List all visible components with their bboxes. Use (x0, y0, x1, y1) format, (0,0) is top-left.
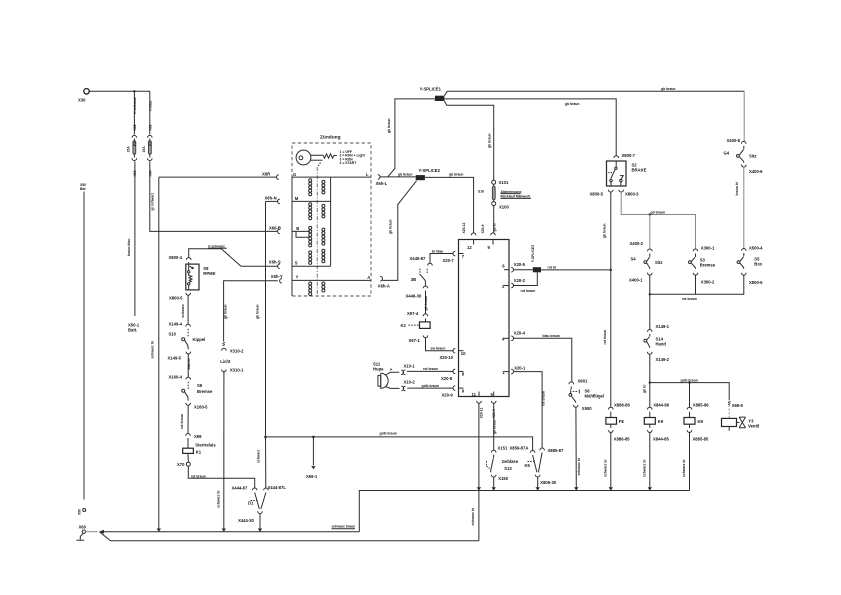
svg-text:X885-85: X885-85 (693, 437, 710, 442)
svg-text:X10-1: X10-1 (404, 363, 416, 368)
svg-text:X6h-L: X6h-L (376, 181, 388, 186)
svg-text:BRAKE: BRAKE (632, 168, 647, 173)
svg-text:schwarz: schwarz (181, 304, 185, 318)
node X30 battery terminal (78, 89, 89, 103)
wire S5 to S4 bottom rail (650, 275, 744, 301)
switch S5 Box (737, 253, 763, 269)
switch S6 Maehfluegel (569, 386, 604, 402)
svg-text:X859-87A: X859-87A (510, 446, 529, 451)
svg-text:schwarz br: schwarz br (577, 457, 581, 475)
svg-text:X60: X60 (79, 525, 87, 530)
wire X10-2 to pin 9 (407, 384, 453, 388)
svg-text:X800-5: X800-5 (590, 191, 604, 196)
switch D1 changeover (248, 493, 266, 514)
svg-text:X885-87: X885-87 (548, 448, 565, 453)
wire X70 to X444-87 (188, 466, 254, 488)
fuse S16 Abbremsung (478, 184, 531, 201)
svg-text:X6h-A: X6h-A (378, 284, 390, 289)
svg-text:gb braun: gb braun (565, 102, 580, 106)
bus A ground rail (86, 530, 360, 534)
svg-text:X97-4: X97-4 (407, 311, 419, 316)
svg-text:Sitz: Sitz (749, 154, 756, 159)
wire K5 to bus (537, 477, 539, 491)
svg-text:K8: K8 (698, 419, 704, 424)
pin 4 (502, 331, 526, 342)
svg-text:X310-2: X310-2 (230, 348, 244, 353)
svg-text:X900: X900 (582, 406, 592, 411)
bus C relay return rail (359, 491, 689, 532)
svg-text:X50: X50 (78, 509, 82, 515)
ignition position table (340, 150, 366, 165)
svg-text:X149-4: X149-4 (169, 321, 183, 326)
svg-text:X885-86: X885-86 (693, 403, 710, 408)
svg-text:G: G (293, 172, 296, 177)
wire X30 to fuses (89, 90, 150, 92)
horn S11 Hupe (373, 362, 400, 389)
node X10-1 (401, 363, 415, 374)
svg-text:Licht: Licht (220, 359, 231, 364)
svg-text:X400-6: X400-6 (749, 169, 763, 174)
node X400-8 (727, 138, 747, 144)
wire splice3 to S2 junction (541, 266, 611, 270)
node X310-2 (222, 348, 244, 353)
svg-text:X500-4: X500-4 (749, 245, 763, 250)
wire X800-5 to X149-4 (181, 295, 188, 324)
svg-text:gb braun: gb braun (602, 223, 606, 238)
svg-text:sw braun: sw braun (431, 346, 446, 350)
wire pin 4 to S6 (514, 334, 572, 382)
pin 9 left (442, 386, 465, 398)
svg-text:gb braun: gb braun (223, 304, 227, 319)
wire Y row exit (224, 281, 278, 342)
svg-text:X6h-S: X6h-S (269, 259, 281, 264)
svg-text:X6R: X6R (262, 172, 270, 177)
svg-text:rot braun: rot braun (682, 297, 697, 301)
svg-text:gb braun: gb braun (256, 304, 260, 319)
pin 1 (502, 365, 526, 374)
wire S3 bottom to rail (695, 275, 697, 294)
svg-text:gb braun: gb braun (398, 172, 413, 176)
svg-text:gelb braun: gelb braun (380, 432, 397, 436)
svg-text:15A: 15A (142, 146, 146, 153)
junction triangles on bus A (157, 529, 161, 532)
svg-text:X400-2: X400-2 (630, 241, 644, 246)
svg-text:Ventil: Ventil (748, 424, 759, 429)
wire ignition left edge (291, 177, 293, 296)
relay K8 (684, 403, 709, 442)
svg-text:X20-10: X20-10 (440, 355, 454, 360)
ignition contact circles column 1 group B (309, 226, 312, 247)
wire S2 right pin to S3 (621, 192, 695, 249)
switch S13 Geblaese (487, 455, 519, 473)
svg-text:X20-8: X20-8 (441, 376, 453, 381)
wire X310-1 to bus A (216, 372, 224, 532)
svg-text:rt blau: rt blau (148, 101, 152, 111)
svg-text:X20-4: X20-4 (514, 331, 526, 336)
wire S4 bottom to X149-1 (649, 275, 651, 330)
svg-text:X151: X151 (498, 446, 508, 451)
svg-text:+: + (390, 368, 393, 373)
node X800-3 (619, 190, 639, 197)
svg-text:A: A (367, 275, 370, 280)
svg-text:Y3: Y3 (748, 418, 754, 423)
node X60 ground terminal (79, 525, 87, 534)
node X446-30 (406, 286, 428, 298)
wire top bus down to X400-8 (743, 91, 745, 141)
svg-text:F8: F8 (619, 419, 625, 424)
svg-text:rot braun: rot braun (521, 289, 536, 293)
node X6h-N (265, 195, 280, 203)
wire X10-1 to pin 8 (407, 367, 453, 371)
svg-text:S13: S13 (504, 466, 512, 471)
fuse F2 15A (127, 135, 138, 160)
node X101 (492, 180, 509, 185)
svg-text:K9: K9 (658, 419, 664, 424)
svg-text:X886-85: X886-85 (614, 437, 631, 442)
node X6h-A (378, 276, 390, 288)
wire ignition G feed riser (150, 177, 158, 532)
ground symbol (76, 533, 84, 540)
wire K9 to bus (642, 432, 650, 490)
ignition contact circles column 2 group M (322, 204, 325, 218)
svg-text:X500-5: X500-5 (749, 280, 763, 285)
svg-text:gb braun: gb braun (449, 173, 464, 177)
svg-text:X6h-N: X6h-N (265, 195, 277, 200)
switch S3 Bremse (689, 254, 716, 269)
ignition contact circles column 2 group S (322, 249, 325, 263)
svg-text:X20-12: X20-12 (462, 222, 466, 233)
svg-text:Kippel: Kippel (193, 337, 206, 342)
svg-text:Zündung: Zündung (320, 135, 341, 141)
pin 10 (440, 348, 467, 360)
node X800-7 (614, 153, 636, 158)
wire fuse F1 feed (149, 91, 151, 134)
node X900 (574, 405, 593, 411)
svg-text:schwarz br: schwarz br (471, 507, 475, 525)
ignition contact circles column 1 group S (309, 251, 312, 265)
pin 6 (502, 262, 525, 272)
wire X446-30 to X97-4 (424, 291, 428, 314)
relay K1 Startrelais (183, 438, 217, 454)
svg-text:schwarz br: schwarz br (642, 459, 646, 477)
svg-text:rot braun: rot braun (423, 367, 438, 371)
svg-text:gb braun: gb braun (492, 419, 496, 434)
svg-text:X310-1: X310-1 (230, 367, 244, 372)
pin 5 (491, 392, 497, 419)
svg-text:X444-87: X444-87 (232, 485, 249, 490)
node X59-1 stub (306, 437, 318, 479)
svg-text:Y: Y (296, 275, 299, 280)
svg-text:rt schwarz: rt schwarz (133, 97, 137, 114)
wire S13 to bus (493, 477, 495, 491)
node X800-5 (590, 190, 614, 197)
node X150 (491, 475, 508, 481)
svg-text:br blau: br blau (432, 249, 443, 253)
svg-text:X800-3: X800-3 (625, 191, 639, 196)
node X99 (186, 434, 202, 439)
node X50 connector (78, 509, 86, 516)
svg-text:Batt.: Batt. (128, 328, 137, 333)
ignition contact circles column 1 group M (309, 203, 312, 220)
svg-text:K2: K2 (401, 323, 407, 328)
svg-text:X160-5: X160-5 (194, 404, 208, 409)
svg-text:X149-1: X149-1 (656, 324, 670, 329)
svg-text:L: L (366, 172, 369, 177)
svg-text:15A: 15A (127, 146, 131, 153)
svg-text:K1: K1 (196, 449, 202, 454)
svg-text:X20-9: X20-9 (481, 224, 485, 233)
svg-text:rot braun: rot braun (180, 414, 184, 429)
valve Y3 Ventil (722, 405, 760, 431)
svg-text:12: 12 (467, 245, 472, 250)
node X50-2 Batt (80, 183, 86, 191)
switch S9 Bremse (182, 382, 213, 401)
svg-text:Sitz: Sitz (655, 260, 662, 265)
node X10-2 (401, 379, 415, 390)
wire ignition L row to pin 12 (380, 177, 474, 233)
node X6h-S (269, 259, 281, 268)
svg-text:gb braun: gb braun (661, 87, 676, 91)
ignition contact circles column 1 group G (309, 179, 312, 196)
sensor box S8 RPMK (186, 262, 216, 290)
wire splice1 to X800-7 feed (444, 99, 616, 156)
svg-text:Gebläse: Gebläse (502, 459, 519, 464)
node X149-4 (169, 321, 191, 326)
wire pin 5 to X151 (492, 403, 496, 450)
wire ignition M riser (256, 201, 266, 437)
svg-text:X70: X70 (177, 462, 185, 467)
svg-text:gb br: gb br (642, 384, 646, 393)
svg-text:F1: F1 (149, 142, 153, 146)
svg-text:D1: D1 (248, 501, 254, 506)
svg-text:rot braun: rot braun (541, 391, 545, 406)
svg-text:X160-4: X160-4 (169, 374, 183, 379)
switch K5 changeover (510, 446, 565, 485)
node X160-5 (186, 403, 208, 410)
node X445-87 (410, 256, 433, 266)
svg-text:Startrelais: Startrelais (195, 443, 216, 448)
node X69-6 (728, 402, 744, 409)
wire S6 to bus (576, 407, 581, 490)
svg-text:schwarz br: schwarz br (682, 459, 686, 477)
wire S2 left pin down to F8 (602, 192, 612, 407)
wire row G (292, 177, 371, 266)
svg-text:X149-2: X149-2 (656, 357, 670, 362)
svg-text:schwarz braun: schwarz braun (332, 525, 356, 529)
svg-text:X20-2: X20-2 (514, 278, 526, 283)
node X149-1 (648, 324, 670, 332)
wire row M (292, 200, 331, 202)
svg-text:X20-11: X20-11 (479, 408, 483, 419)
node X300-1 (693, 245, 715, 251)
splice Y-SPLICE3 (531, 245, 541, 272)
wire row S (292, 265, 331, 267)
svg-text:gr schwarz: gr schwarz (150, 192, 154, 210)
wire splice1 lower branch to X101 (444, 101, 493, 180)
ignition contact circles column 1 group Y (309, 282, 312, 296)
pin 12 (467, 233, 476, 250)
wire fuse F2 feed (133, 91, 135, 134)
svg-text:X800-5: X800-5 (169, 296, 183, 301)
svg-text:Y-SPLICE3: Y-SPLICE3 (531, 245, 535, 262)
svg-text:4 = START: 4 = START (340, 161, 358, 165)
svg-text:schwarz: schwarz (256, 449, 260, 463)
svg-text:X61: X61 (148, 124, 152, 130)
svg-text:S4: S4 (631, 257, 637, 262)
svg-text:X446-30: X446-30 (406, 293, 423, 298)
wire F8 to bus (603, 432, 611, 490)
wire X400-6 to X500-4 (735, 167, 744, 249)
wire pin 2 loop to splice3 (514, 272, 538, 293)
svg-text:K5: K5 (525, 463, 531, 468)
control unit U1 (459, 240, 510, 397)
svg-text:gb braun: gb braun (424, 296, 428, 311)
relay K9 (644, 403, 669, 442)
svg-text:X20-7: X20-7 (443, 258, 455, 263)
net label schwarz braun underlined (332, 525, 356, 529)
svg-text:Hupe: Hupe (373, 367, 384, 372)
svg-text:Bat: Bat (80, 187, 86, 191)
node X400-1 (629, 273, 652, 283)
pin 11 (472, 392, 484, 419)
wire X160-5 to X99 (180, 405, 188, 434)
wire S row exit to S8 (189, 249, 278, 266)
svg-text:Hand: Hand (656, 342, 667, 347)
node X800-4 (169, 255, 192, 260)
svg-text:X886-86: X886-86 (614, 403, 631, 408)
svg-text:gb braun: gb braun (389, 219, 393, 234)
node X310-1 (222, 367, 244, 372)
svg-text:Bremse: Bremse (197, 389, 213, 394)
svg-text:X59-1: X59-1 (306, 474, 318, 479)
svg-text:X6h-Y: X6h-Y (271, 274, 283, 279)
svg-text:gb br: gb br (492, 222, 496, 231)
wire pin 11 riser to bus B (471, 403, 479, 541)
svg-text:X99: X99 (194, 434, 202, 439)
svg-text:F2: F2 (133, 142, 137, 146)
splice Y-SPLICE1 (420, 86, 445, 101)
svg-text:X69-6: X69-6 (732, 403, 744, 408)
wire M riser to X444-87L (256, 436, 266, 489)
wire X97-1 to pin 10 (426, 338, 454, 351)
svg-text:X844-85: X844-85 (653, 437, 670, 442)
wire Licht feed (223, 304, 228, 345)
svg-text:X444-30: X444-30 (238, 518, 255, 523)
svg-text:3B: 3B (411, 277, 416, 282)
pin 7 (432, 249, 465, 263)
node X151 (491, 446, 508, 453)
node X160-4 (169, 374, 191, 379)
node X300-2 (693, 273, 715, 285)
wire splice1 left branch to ignition L riser (388, 99, 435, 177)
svg-text:S9: S9 (197, 383, 203, 388)
wire label rot schwarz underlined (208, 244, 227, 248)
wire pin 1 to K5 (514, 372, 546, 448)
svg-text:braun blau: braun blau (127, 239, 131, 256)
wire row B (292, 231, 310, 237)
fuse F1 15A (142, 135, 153, 160)
svg-text:X10-2: X10-2 (404, 379, 416, 384)
svg-text:Y-SPLICE2: Y-SPLICE2 (419, 168, 441, 173)
wire K8 to bus (682, 432, 690, 490)
svg-text:G4: G4 (724, 150, 730, 155)
node X400-2 (630, 241, 653, 251)
node X444-87L (264, 485, 287, 490)
svg-text:X400-1: X400-1 (629, 278, 643, 283)
wire K8 feed (688, 381, 690, 407)
wire D1 to bus A (238, 513, 260, 531)
wire X149-5 to X160-4 (187, 354, 191, 378)
svg-text:X20-9: X20-9 (442, 392, 454, 397)
svg-text:blau braun: blau braun (543, 334, 560, 338)
ignition switch box Zuendung (292, 135, 371, 297)
svg-text:X62: X62 (133, 124, 137, 130)
node X444-87 (232, 485, 258, 490)
svg-text:X150: X150 (498, 476, 508, 481)
wire X100 to pin 9 (493, 206, 495, 233)
ignition contact circles column 2 group B (322, 228, 325, 245)
svg-text:schwarz br: schwarz br (150, 340, 154, 358)
svg-text:rot braun: rot braun (603, 330, 607, 345)
svg-text:rot braun: rot braun (191, 474, 206, 478)
svg-text:X100: X100 (499, 205, 509, 210)
wire X50-2 down to X50 connector (83, 192, 85, 500)
wire S4 feed (649, 213, 651, 249)
svg-text:11: 11 (472, 392, 477, 397)
svg-text:Bremse: Bremse (700, 263, 716, 268)
ignition actuation dash-dot line (316, 167, 318, 294)
svg-text:X844-86: X844-86 (653, 403, 670, 408)
svg-text:gb braun: gb braun (651, 210, 666, 214)
svg-text:X20-5: X20-5 (514, 262, 526, 267)
pin 8 (441, 369, 465, 381)
ignition contact circles column 2 group G (322, 180, 325, 194)
pin 9 top (488, 233, 496, 250)
svg-text:X66-B: X66-B (269, 226, 281, 231)
wire cross rail to K5 (266, 432, 533, 451)
node X66-B (269, 226, 281, 234)
node X50-1 Batterie (128, 323, 140, 333)
node X6h-L (376, 175, 388, 187)
svg-text:B: B (296, 226, 299, 231)
node X149-5 (168, 352, 191, 361)
node X500-4 (742, 245, 764, 250)
svg-text:X444-87L: X444-87L (268, 485, 287, 490)
svg-text:RPMK: RPMK (203, 271, 215, 276)
pin 2 (502, 278, 526, 289)
svg-text:schwarz br: schwarz br (216, 490, 220, 508)
svg-text:gb braun: gb braun (387, 118, 391, 133)
svg-text:Y-SPLICE1: Y-SPLICE1 (420, 86, 442, 91)
node X149-2 (648, 352, 670, 362)
svg-text:X400-8: X400-8 (727, 138, 741, 143)
node X800-5 (169, 293, 191, 301)
svg-text:X30: X30 (78, 98, 86, 103)
node X6h-Y (271, 274, 283, 283)
node X6R (262, 172, 279, 180)
svg-text:X800-7: X800-7 (622, 153, 636, 158)
node X97-4 (407, 311, 428, 316)
svg-text:X20-1: X20-1 (514, 365, 526, 370)
wire battery branch to X50-1 (134, 161, 136, 316)
svg-text:X97-1: X97-1 (409, 338, 421, 343)
switch S4 Sitz upper (724, 146, 757, 163)
svg-text:gb braun: gb braun (488, 133, 492, 148)
svg-text:rot br: rot br (548, 266, 558, 270)
svg-text:X149-5: X149-5 (168, 355, 182, 360)
svg-text:X445-87: X445-87 (410, 256, 427, 261)
wire row Y (292, 279, 371, 281)
